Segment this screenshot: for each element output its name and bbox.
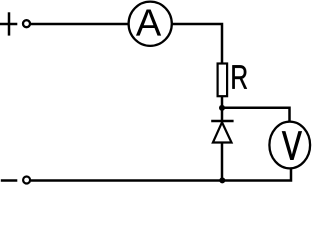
wire: diode anode down to bottom rail bbox=[221, 143, 224, 181]
wire: positive terminal to ammeter bbox=[31, 23, 129, 26]
terminal polarity mark - bbox=[1, 179, 18, 182]
label R bbox=[232, 65, 247, 88]
wire: junction to voltmeter top bbox=[222, 108, 290, 122]
resistor R bbox=[218, 64, 228, 97]
negative output terminal bbox=[23, 177, 30, 184]
wire: resistor bottom to diode cathode bar bbox=[221, 96, 224, 121]
positive input terminal bbox=[23, 20, 30, 27]
junction node (resistor / diode / voltmeter branch) bbox=[219, 105, 225, 111]
terminal polarity mark + bbox=[0, 12, 17, 35]
wire: voltmeter bottom to bottom rail bbox=[31, 168, 291, 181]
diode D (zener/LED under test), cathode bar bbox=[211, 120, 233, 123]
wire: ammeter to top-right corner, down to resistor bbox=[172, 24, 222, 64]
junction node (diode / bottom rail) bbox=[219, 177, 225, 183]
diode D triangle bbox=[213, 122, 232, 142]
ammeter A bbox=[129, 2, 172, 46]
voltmeter V bbox=[269, 122, 310, 169]
